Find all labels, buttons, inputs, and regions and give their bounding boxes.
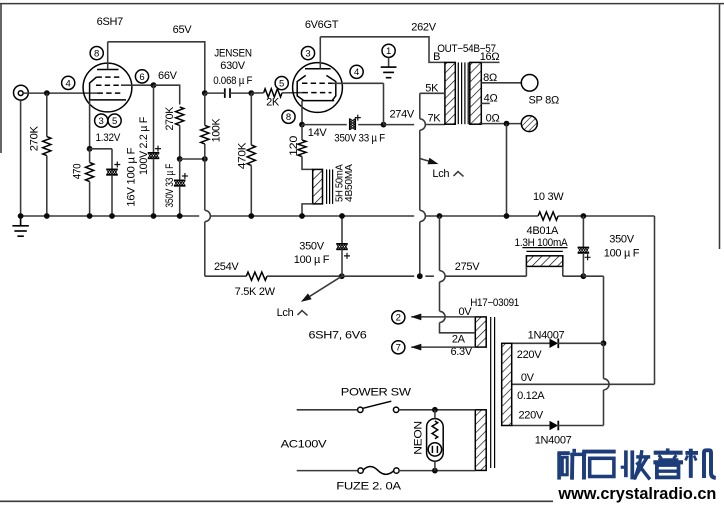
wire 33uF top — [179, 159, 181, 180]
hop rectifier over CT — [604, 379, 610, 390]
junction dot cap1/B+ — [339, 273, 345, 279]
svg-text:H17−03091: H17−03091 — [470, 297, 519, 309]
resistor R 270K input — [43, 137, 51, 156]
hop 100K over bus — [205, 210, 211, 221]
junction dot 0ohm — [504, 121, 510, 127]
wire CT return — [512, 383, 655, 385]
PT core lines — [490, 317, 492, 468]
svg-text:4Ω: 4Ω — [484, 92, 498, 104]
svg-text:6V6GT: 6V6GT — [305, 19, 339, 31]
PT heater winding — [475, 317, 486, 347]
svg-text:630V: 630V — [220, 60, 245, 72]
fuse element — [363, 466, 394, 474]
6V6 beam plate left — [297, 75, 306, 100]
fuse terminal a — [358, 468, 363, 473]
6SH7 cathode lead down — [89, 100, 91, 149]
pin 5 6V6 — [275, 77, 288, 90]
svg-text:350V: 350V — [609, 234, 634, 246]
wire cathode to cap — [90, 148, 112, 150]
wire 120 to choke — [302, 157, 313, 170]
junction dot 10ohm/cap2 — [581, 213, 587, 219]
capacitor C 350V 33uF B — [349, 118, 351, 130]
wire 470K bottom — [250, 165, 252, 216]
wire mains bot right — [399, 470, 476, 472]
svg-text:0.12A: 0.12A — [517, 390, 545, 402]
resistor R 470 — [86, 163, 94, 182]
junction dot pin6 node — [151, 82, 157, 88]
capacitor C 100V 2.2uF — [148, 152, 160, 154]
arrowhead pin2 — [411, 314, 422, 321]
plus 2.2uF cap — [155, 146, 161, 152]
pin 5 6SH7 — [108, 114, 121, 127]
junction dot 0ohm/bus — [504, 213, 510, 219]
fuse terminal b — [394, 468, 399, 473]
svg-text:65V: 65V — [173, 24, 193, 36]
svg-text:6: 6 — [139, 72, 144, 83]
wire 0ohm down to bus — [506, 124, 508, 216]
svg-text:4: 4 — [66, 78, 71, 89]
junction dot 274V node — [381, 122, 387, 128]
pin 3 6SH7 — [95, 114, 108, 127]
junction dot 470K/bus — [248, 213, 254, 219]
ground symbol pin1 — [381, 66, 397, 68]
wire rectifier vertical lower — [603, 390, 605, 426]
wire 33uF A bottom — [179, 186, 181, 216]
wire 270K screen bottom — [179, 125, 181, 159]
arrow to Lch upper — [420, 159, 429, 162]
wire 2.2uF bottom — [153, 158, 155, 216]
wire 100K top — [204, 93, 206, 125]
wire rectifier vertical mid — [603, 343, 605, 378]
junction dot jensen out — [248, 90, 254, 96]
neon lamp envelope — [427, 419, 444, 462]
pin 1 6V6 — [382, 44, 395, 57]
wire 100K bottom — [204, 144, 206, 211]
6V6 cathode lead down — [301, 101, 303, 125]
wire 33uF B to node — [358, 124, 383, 126]
wire 5K down upper — [419, 93, 421, 119]
wire 0ohm tap — [481, 123, 521, 125]
wire 100K to B+ line — [204, 222, 206, 277]
svg-text:16Ω: 16Ω — [480, 51, 500, 63]
wire heater gnd to CT — [440, 323, 476, 333]
speaker jack hot — [521, 75, 538, 92]
neon series resistor — [432, 421, 438, 439]
plus cap2 — [585, 254, 591, 260]
junction dot 6V6 cathode — [299, 122, 305, 128]
wire choke bottom — [302, 204, 313, 216]
diode D 1N4007 upper — [550, 339, 559, 348]
wire heater 0V tap — [411, 316, 475, 318]
junction dot 5Kwire/B+ — [417, 273, 423, 279]
watermark CJK crystalradio — [557, 448, 715, 479]
OPT secondary winding — [470, 62, 482, 124]
svg-text:220V: 220V — [517, 349, 542, 361]
speaker jack gnd — [521, 116, 537, 132]
wire 5K tap — [420, 92, 445, 94]
svg-text:8: 8 — [94, 49, 99, 60]
junction dot input/270K — [44, 90, 50, 96]
svg-text:1N4007: 1N4007 — [535, 435, 572, 447]
ground symbol chassis — [20, 216, 22, 226]
svg-text:2A: 2A — [452, 333, 466, 345]
hop 5K over bus — [420, 210, 426, 221]
wire jack to grid — [23, 92, 97, 94]
junction dot 270K/33uF — [177, 156, 183, 162]
pin 4 6SH7 — [62, 76, 75, 89]
hop 5K wire over 274V — [420, 119, 426, 130]
wire mains top left — [297, 409, 358, 411]
svg-text:254V: 254V — [214, 261, 239, 273]
6SH7 screen lead right — [121, 84, 154, 86]
svg-text:SP 8Ω: SP 8Ω — [529, 94, 559, 106]
plus cap1 — [344, 253, 350, 259]
svg-text:100K: 100K — [211, 118, 223, 142]
wire B+ left segment — [205, 275, 247, 277]
svg-text:7K: 7K — [427, 113, 441, 125]
PT mains winding — [475, 410, 486, 471]
wire B+ right of choke — [563, 275, 584, 277]
neon wires — [434, 410, 436, 471]
svg-text:14V: 14V — [308, 127, 328, 139]
junction dot cap16/bus — [109, 213, 115, 219]
wire 2K to jensen — [251, 92, 263, 94]
choke 4B50MA core lines — [326, 169, 328, 204]
capacitor C 16V 100uF — [106, 168, 118, 170]
6V6 screen drop — [383, 83, 385, 124]
plus 33uF B — [355, 115, 361, 121]
wire 5K down mid — [419, 130, 421, 210]
wire jensen right — [230, 92, 251, 94]
wire B+ mid2 — [342, 275, 434, 277]
wire B+ mid3 — [445, 275, 526, 277]
svg-text:275V: 275V — [455, 261, 480, 273]
wire 470 bottom — [89, 182, 91, 217]
wire mains bot left — [297, 470, 359, 472]
svg-text:270K: 270K — [29, 125, 41, 151]
capacitor C 350V 100uF A — [341, 216, 343, 244]
wire B+ to rectifier — [583, 275, 603, 277]
wire B+ mid — [267, 275, 342, 277]
wire 5K down lower — [419, 222, 421, 277]
6SH7 screen dashes — [96, 84, 121, 86]
junction dot cap1/bus — [339, 213, 345, 219]
svg-text:100V 2.2 µ F: 100V 2.2 µ F — [138, 116, 150, 175]
svg-text:100 µ F: 100 µ F — [604, 247, 640, 259]
resistor R 10 3W — [538, 212, 558, 220]
wire 262V rail — [320, 37, 445, 63]
svg-text:16V 100 µ F: 16V 100 µ F — [126, 147, 138, 207]
wire heater 6.3V tap — [411, 346, 475, 348]
wire connector 159 — [180, 158, 205, 160]
switch terminal b — [393, 407, 398, 412]
wire bus to CT return — [654, 216, 656, 384]
wire heater gnd upper — [439, 216, 441, 271]
svg-text:AC100V: AC100V — [281, 439, 328, 451]
wire 2K to grid — [282, 92, 303, 94]
6SH7 suppressor tie to cathode — [90, 77, 97, 100]
svg-text:220V: 220V — [518, 410, 543, 422]
right border segment — [719, 5, 721, 250]
pin 4 6V6 — [350, 65, 363, 78]
wire rectifier vertical upper — [603, 276, 605, 343]
wire 65V rail — [108, 42, 205, 93]
wire cap 16V top — [111, 149, 113, 170]
6V6 plate lead — [319, 37, 321, 69]
pin 8 6V6 — [282, 110, 295, 123]
svg-text:8: 8 — [286, 112, 291, 123]
input jack J1 — [14, 85, 29, 100]
svg-text:4: 4 — [354, 67, 359, 78]
wire jensen left — [205, 92, 225, 94]
junction dot choke/bus — [299, 213, 305, 219]
resistor R 120 — [298, 140, 306, 157]
svg-text:100 µ F: 100 µ F — [294, 254, 330, 266]
wire jack down to bus — [20, 100, 22, 216]
OPT primary winding — [445, 62, 455, 124]
left edge artifact — [0, 4, 2, 153]
wire upper 220V tap — [512, 342, 550, 344]
pin 2 heater — [392, 311, 405, 324]
resistor R 470K — [247, 145, 255, 165]
6SH7 plate line — [97, 69, 119, 71]
6SH7 grid dashes — [98, 92, 121, 94]
tube 6V6GT envelope — [293, 63, 343, 113]
svg-text:0V: 0V — [521, 372, 535, 384]
arrowhead pin7 — [411, 344, 422, 351]
svg-text:1.32V: 1.32V — [96, 132, 121, 144]
pin 3 6V6 — [301, 47, 314, 60]
junction dot neon top — [432, 407, 438, 413]
ground bus wire right of 10ohm — [558, 215, 654, 217]
6SH7 plate lead up — [107, 42, 109, 70]
svg-text:3: 3 — [99, 116, 104, 127]
svg-text:6SH7, 6V6: 6SH7, 6V6 — [309, 329, 367, 341]
capacitor C 350V 33uF A — [174, 179, 186, 181]
svg-text:5: 5 — [279, 79, 284, 90]
junction dot heater gnd/bus — [437, 213, 443, 219]
wire 470K top — [250, 93, 252, 145]
plus 33uF A — [182, 173, 188, 179]
wire 270K bottom — [46, 156, 48, 216]
svg-text:NEON: NEON — [412, 421, 424, 455]
junction dot connector/100K — [202, 156, 208, 162]
wire cap 16V bottom — [111, 175, 113, 216]
resistor R 2K — [264, 89, 282, 97]
capacitor C 350V 100uF B — [582, 216, 584, 248]
6V6 beam plate right — [326, 75, 335, 100]
svg-text:66V: 66V — [158, 70, 178, 82]
resistor R 100K — [201, 125, 209, 143]
6V6 grid dashes — [303, 92, 332, 94]
svg-text:JENSEN: JENSEN — [214, 48, 252, 60]
6V6 screen dashes — [302, 82, 332, 84]
svg-text:10 3W: 10 3W — [533, 191, 564, 203]
junction dot rectifier — [601, 340, 607, 346]
OPT core lines — [457, 62, 459, 124]
svg-text:350V: 350V — [299, 241, 324, 253]
junction dot 270K/bus — [44, 213, 50, 219]
svg-text:270K: 270K — [164, 106, 176, 130]
svg-text:POWER SW: POWER SW — [341, 386, 412, 398]
wire upper diode out — [557, 342, 603, 344]
svg-text:0Ω: 0Ω — [486, 112, 500, 124]
svg-text:2: 2 — [396, 313, 401, 324]
svg-text:1: 1 — [386, 46, 391, 57]
tube 6SH7 envelope — [83, 63, 132, 112]
bottom border — [0, 500, 553, 502]
pin 8 6SH7 — [90, 47, 103, 60]
wire 66V corner — [154, 85, 180, 104]
choke 4B01A winding — [526, 256, 562, 267]
svg-text:5K: 5K — [425, 82, 439, 94]
wire heater gnd mid — [439, 282, 441, 312]
choke 4B50MA winding — [313, 169, 323, 204]
svg-text:4B50MA: 4B50MA — [344, 164, 355, 202]
svg-text:6SH7: 6SH7 — [97, 16, 123, 28]
svg-text:7: 7 — [396, 343, 401, 354]
wire 470 top — [89, 149, 91, 163]
svg-text:350V 33 µ F: 350V 33 µ F — [334, 133, 385, 145]
PT HV winding — [502, 343, 512, 425]
svg-text:FUZE 2. 0A: FUZE 2. 0A — [336, 480, 402, 492]
switch lever — [363, 401, 391, 408]
wire lower diode out — [557, 425, 603, 427]
diode D 1N4007 lower — [550, 421, 559, 430]
wire 274V to 7K — [384, 124, 445, 126]
svg-text:www.crystalradio.cn: www.crystalradio.cn — [557, 484, 716, 503]
top border — [0, 3, 724, 5]
pin 6 6SH7 — [135, 70, 148, 83]
svg-text:1N4007: 1N4007 — [528, 330, 565, 342]
6SH7 cathode line — [90, 99, 126, 101]
6V6 cathode line — [302, 100, 334, 102]
wire 8ohm tap — [481, 82, 521, 84]
svg-text:470K: 470K — [237, 142, 249, 169]
junction dot cathode 6SH7 — [87, 146, 93, 152]
svg-text:B: B — [433, 51, 440, 63]
junction dot 470/bus — [87, 213, 93, 219]
wire pin6 down to cap — [153, 85, 155, 153]
plus 16V cap — [114, 162, 120, 168]
pin1 ground stem — [388, 58, 390, 68]
wire 4ohm stub — [481, 102, 490, 104]
choke 4B01A core lines — [522, 247, 567, 249]
6V6 screen lead — [332, 82, 384, 84]
6SH7 suppressor dashes — [97, 76, 121, 78]
svg-text:4B01A: 4B01A — [527, 225, 559, 237]
svg-text:350V 33 µ F: 350V 33 µ F — [164, 164, 176, 208]
hop heater-gnd over 0V tap — [440, 311, 446, 322]
wire lower 220V tap — [512, 425, 550, 427]
svg-text:7.5K 2W: 7.5K 2W — [235, 286, 276, 298]
pin 7 heater — [392, 341, 405, 354]
svg-text:3: 3 — [305, 49, 310, 60]
wire cathode to 33uF — [302, 124, 347, 126]
svg-text:262V: 262V — [411, 21, 436, 33]
ground bus wire — [21, 215, 539, 217]
choke 4B01A stubs — [526, 266, 562, 276]
wire 270K top — [46, 93, 48, 137]
svg-text:470: 470 — [71, 164, 83, 180]
switch terminal a — [358, 407, 363, 412]
junction dot node 65V — [202, 90, 208, 96]
svg-text:Lch: Lch — [432, 168, 449, 180]
svg-text:120: 120 — [288, 136, 300, 156]
junction dot 33uFA/bus — [177, 213, 183, 219]
hop heater-gnd over B+ — [440, 271, 446, 282]
svg-text:274V: 274V — [389, 109, 414, 121]
junction dot cap2/B+ — [581, 273, 587, 279]
junction dot jack/bus — [18, 213, 24, 219]
junction dot 2.2uF/bus — [151, 213, 157, 219]
wire mains top right — [399, 409, 476, 411]
svg-text:Lch: Lch — [277, 307, 294, 319]
svg-text:0.068 µ F: 0.068 µ F — [213, 75, 253, 87]
6V6 plate line — [305, 68, 331, 70]
neon bulb — [428, 443, 441, 456]
resistor R 270K screen — [176, 107, 184, 125]
svg-text:2K: 2K — [266, 97, 280, 109]
svg-text:5: 5 — [112, 116, 117, 127]
resistor R 7.5K 2W — [246, 272, 267, 280]
wire 16ohm stub — [481, 61, 499, 63]
capacitor C JENSEN 0.068uF — [224, 88, 226, 98]
arrow to Lch lower — [310, 276, 342, 296]
wire 120 top — [301, 125, 303, 140]
junction dot neon bottom — [432, 468, 438, 474]
